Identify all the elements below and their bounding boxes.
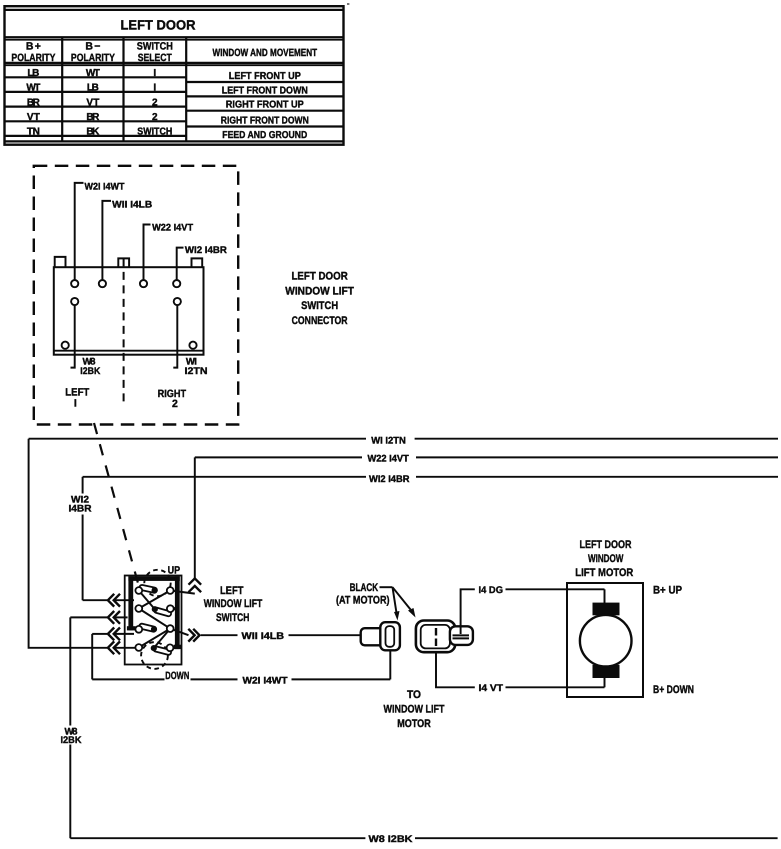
connector chevrons row3 (108, 628, 120, 641)
dashed leader line from box to switch (94, 423, 140, 591)
wire W11 14LB horizontal (201, 634, 361, 636)
svg-text:WINDOW AND MOVEMENT: WINDOW AND MOVEMENT (213, 47, 318, 59)
switch blade 3 (142, 626, 154, 629)
switch pin L1 (135, 587, 142, 594)
wire 14 DG (461, 589, 605, 634)
connector chevrons row2 (108, 611, 120, 624)
svg-text:2: 2 (152, 112, 158, 123)
switch contact dot D2 (152, 606, 158, 612)
wire W8 vertical down (69, 617, 71, 838)
wire W12 vertical to switch (82, 477, 84, 600)
pin circle B2 (174, 298, 181, 305)
svg-text:W22 I4VT: W22 I4VT (368, 453, 409, 464)
wire W12 into switch row1 (83, 599, 134, 601)
label W8 12BK vertical (61, 726, 82, 746)
switch outer box (125, 576, 182, 665)
wire pin W1 lead down (173, 305, 177, 368)
svg-text:VT: VT (86, 97, 99, 108)
motor box (567, 583, 643, 697)
pin circle A1 (71, 280, 78, 287)
connector tab right (192, 258, 203, 267)
switch link L1-D2 (139, 591, 155, 610)
pin circle A4 (173, 280, 180, 287)
svg-text:B −: B − (85, 40, 100, 52)
svg-text:RIGHT FRONT DOWN: RIGHT FRONT DOWN (221, 116, 309, 127)
wire pin W22 lead (144, 225, 151, 281)
wire W1 left vertical to switch (29, 439, 108, 648)
plug P1 inner bar (386, 626, 395, 647)
switch pin R4 (167, 644, 174, 651)
svg-text:LB: LB (27, 68, 39, 79)
svg-text:LEFT FRONT UP: LEFT FRONT UP (229, 71, 301, 82)
svg-text:I: I (153, 68, 156, 79)
svg-text:MOTOR: MOTOR (397, 718, 431, 730)
wire W22 vertical to switch (194, 457, 196, 578)
pin circle B1 (71, 298, 78, 305)
table column dividers (62, 37, 186, 141)
speck top (347, 3, 349, 5)
svg-text:I: I (153, 83, 156, 94)
svg-text:(AT MOTOR): (AT MOTOR) (336, 595, 390, 607)
wire W21 into switch row3 (92, 633, 134, 635)
wire 14 VT (436, 652, 605, 688)
leader arrow to plug P2 (393, 587, 416, 617)
switch link R3-L4 (139, 629, 170, 648)
svg-text:SWITCH: SWITCH (137, 40, 173, 52)
switch link R1 to W22 (170, 591, 195, 594)
table right row separators (186, 82, 343, 127)
svg-text:WINDOW LIFT: WINDOW LIFT (384, 703, 445, 715)
svg-text:W2I I4WT: W2I I4WT (85, 182, 125, 193)
svg-text:WT: WT (86, 68, 100, 79)
svg-text:TO: TO (407, 689, 421, 701)
switch link R2 to frame (172, 607, 177, 610)
table row 3 cells (27, 97, 304, 110)
switch pin L2 (135, 605, 142, 612)
switch blade 4 (156, 649, 169, 652)
SW-CONNECTOR-BODY (54, 267, 204, 355)
switch contact dot D3 (151, 626, 157, 632)
wire W21 14WT horizontal (92, 678, 390, 680)
connector bottom inner line (54, 350, 204, 352)
svg-text:BLACK: BLACK (350, 582, 379, 594)
svg-text:BR: BR (86, 112, 100, 123)
connector chevrons row4 (108, 641, 120, 654)
svg-text:FEED AND GROUND: FEED AND GROUND (222, 130, 307, 141)
svg-text:WT: WT (26, 83, 40, 94)
svg-text:2: 2 (152, 97, 158, 108)
table header B+ POLARITY (11, 40, 55, 64)
label LEFT WINDOW LIFT SWITCH (204, 585, 263, 624)
wire pin W21 lead (75, 183, 84, 280)
plug P1 wire side neck (361, 628, 384, 645)
wire W21 vertical (91, 634, 93, 680)
svg-text:SWITCH: SWITCH (216, 612, 250, 624)
svg-text:I2BK: I2BK (80, 366, 100, 377)
wire W8 into switch row2 (70, 616, 127, 618)
plug P2 inner dashed bar (435, 628, 437, 646)
svg-text:UP: UP (168, 564, 181, 576)
label TO WINDOW LIFT MOTOR (384, 689, 445, 730)
pin circle A3 (140, 280, 147, 287)
svg-text:LEFT FRONT DOWN: LEFT FRONT DOWN (222, 85, 308, 96)
svg-text:I4BR: I4BR (69, 503, 92, 514)
connector tab middle (118, 258, 129, 267)
switch thick frame top bar (128, 576, 179, 581)
label BLACK (AT MOTOR) (336, 582, 390, 607)
switch pin R2 (167, 605, 174, 612)
connector tab left (55, 257, 66, 267)
pin circle C1 (62, 342, 69, 349)
label W12 14BR vertical (69, 494, 92, 514)
table left row separators (5, 77, 187, 136)
label W8 12BK (80, 357, 100, 377)
leader arrow to plug P1 (393, 587, 400, 620)
svg-text:WINDOW LIFT: WINDOW LIFT (285, 285, 354, 297)
svg-text:SWITCH: SWITCH (137, 127, 172, 138)
switch pin R3 (167, 625, 174, 632)
svg-text:W2I I4WT: W2I I4WT (243, 676, 288, 687)
svg-text:TN: TN (27, 127, 40, 138)
svg-text:VT: VT (27, 112, 40, 123)
leader dash after BLACK (380, 586, 393, 588)
svg-text:W22 I4VT: W22 I4VT (152, 223, 193, 234)
svg-text:I2TN: I2TN (185, 366, 208, 377)
svg-text:WINDOW: WINDOW (588, 553, 624, 565)
label RIGHT 2 (158, 388, 187, 410)
wire W12 14BR horizontal (83, 476, 778, 478)
switch link R1-L2 (139, 591, 170, 609)
switch contact dot D1 (152, 587, 158, 593)
switch thick frame left bar (127, 576, 136, 630)
table row 1 cells (27, 68, 301, 82)
svg-text:LIFT MOTOR: LIFT MOTOR (575, 567, 633, 579)
plug P2 inner (421, 625, 450, 649)
svg-text:CONNECTOR: CONNECTOR (292, 315, 348, 327)
switch link R3 to W11 (170, 629, 188, 636)
svg-text:I4 VT: I4 VT (479, 683, 504, 694)
label LEFT 1 (65, 386, 90, 409)
table header SWITCH SELECT (137, 40, 173, 64)
switch blade 1 (142, 588, 154, 591)
switch thick frame right bar (174, 576, 182, 649)
svg-text:DOWN: DOWN (165, 670, 189, 682)
svg-text:WI I2TN: WI I2TN (371, 436, 406, 447)
wire row4 into switch (115, 647, 136, 649)
svg-text:WII I4LB: WII I4LB (242, 631, 285, 642)
pin circle A2 (99, 280, 106, 287)
svg-text:B+ UP: B+ UP (653, 585, 682, 597)
switch dashed circle UP (144, 570, 170, 596)
motor brush top (593, 603, 620, 616)
wire pin W11 lead (102, 201, 111, 280)
svg-text:2: 2 (172, 398, 178, 410)
svg-text:BK: BK (86, 127, 100, 138)
wire W21 up to plug (389, 650, 391, 680)
table row 4 cells (27, 112, 309, 127)
table line under title (double) (5, 37, 344, 40)
svg-text:I: I (74, 397, 77, 409)
plug P2 terminal slots (453, 635, 470, 638)
switch link R3-D4 (154, 629, 170, 648)
table row 5 cells (27, 127, 307, 142)
connector chevrons row1 (108, 594, 120, 607)
svg-text:WII I4LB: WII I4LB (112, 200, 152, 211)
svg-text:LEFT: LEFT (220, 585, 244, 597)
svg-text:SWITCH: SWITCH (301, 300, 338, 312)
label LEFT DOOR WINDOW LIFT MOTOR (575, 539, 633, 579)
svg-text:LEFT DOOR: LEFT DOOR (580, 539, 632, 551)
svg-text:I4 DG: I4 DG (479, 585, 504, 596)
switch link L2-R3 (139, 609, 170, 629)
wire W8 12BK bottom horizontal (70, 837, 777, 839)
connector split dashed center line (123, 258, 125, 404)
svg-text:B+ DOWN: B+ DOWN (653, 684, 694, 696)
svg-text:LEFT: LEFT (65, 386, 90, 398)
svg-text:I2BK: I2BK (61, 735, 82, 746)
svg-text:WINDOW LIFT: WINDOW LIFT (204, 598, 263, 610)
pin circle C2 (189, 342, 196, 349)
dashed detail box (34, 166, 238, 425)
motor brush bottom (593, 665, 620, 678)
label W1 12TN (185, 357, 208, 377)
switch pin R1 (167, 587, 174, 594)
table line under header (double) (5, 63, 344, 65)
wire W1 12TN horizontal (29, 438, 778, 440)
svg-text:WI2 I4BR: WI2 I4BR (369, 474, 410, 485)
table row 2 cells (26, 83, 307, 97)
table outer border (5, 6, 344, 145)
switch dashed circle DOWN (141, 642, 168, 669)
svg-text:RIGHT FRONT UP: RIGHT FRONT UP (226, 100, 304, 111)
svg-text:B +: B + (26, 40, 41, 52)
motor armature circle (580, 615, 632, 667)
plug P2 motor side body (416, 621, 455, 653)
connector chevrons W11 right (188, 629, 199, 642)
switch blade 2 (157, 610, 169, 613)
plug P2 terminal extension (450, 626, 473, 645)
wire pin W8 lead down (71, 305, 75, 368)
svg-text:LEFT DOOR: LEFT DOOR (291, 271, 347, 283)
switch pin L4 (135, 644, 142, 651)
label LEFT DOOR WINDOW LIFT SWITCH CONNECTOR (285, 271, 354, 327)
svg-text:BR: BR (27, 97, 41, 108)
wire pin W12 lead (177, 248, 184, 280)
svg-text:W8 I2BK: W8 I2BK (369, 834, 413, 845)
svg-text:LB: LB (87, 83, 99, 94)
table header B- POLARITY (71, 40, 115, 64)
wire W22 14VT horizontal (195, 456, 778, 458)
connector chevrons W22 up (189, 578, 202, 592)
switch contact dot D4 (151, 645, 157, 651)
table inner bottom line (5, 140, 344, 142)
svg-text:LEFT DOOR: LEFT DOOR (121, 17, 196, 32)
svg-text:WI2 I4BR: WI2 I4BR (185, 245, 227, 256)
switch pin L3 (135, 626, 142, 633)
plug P1 body (380, 622, 400, 650)
